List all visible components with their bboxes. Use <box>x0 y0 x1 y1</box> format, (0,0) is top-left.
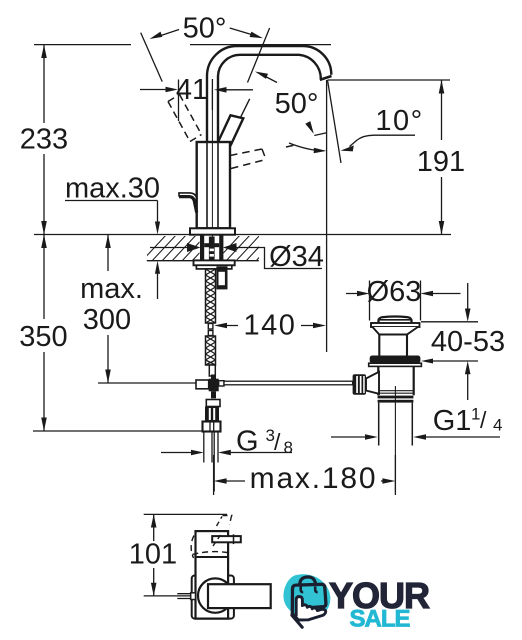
G3/8 nut <box>203 422 221 432</box>
dim max180 <box>214 455 396 495</box>
lower flange <box>369 363 422 366</box>
50deg2 narrow arrow <box>305 121 314 134</box>
countertop bottom line <box>147 260 259 262</box>
dim 41 <box>140 79 253 121</box>
50deg wedge line A <box>141 33 163 82</box>
body divider <box>196 556 229 558</box>
Ø63 arrows <box>357 291 370 297</box>
dim 40-53 <box>421 283 478 400</box>
top flange <box>371 323 420 327</box>
braided hose segment 1 <box>206 269 216 323</box>
pop-up rod below <box>216 266 227 289</box>
tapered neck <box>373 327 418 335</box>
svg-text:4: 4 <box>493 416 502 435</box>
supply connector stack <box>206 400 220 407</box>
spout tube inner <box>218 55 321 142</box>
countertop reference line <box>34 234 451 236</box>
dim max300 vertical <box>107 235 109 384</box>
10deg vertical projection line <box>326 80 328 352</box>
hose break <box>208 324 213 330</box>
spout tube outer <box>207 46 331 142</box>
shopping bag <box>292 584 326 614</box>
svg-text:10°: 10° <box>375 105 423 137</box>
lower body <box>378 366 413 395</box>
50deg left/right arrows <box>150 32 163 39</box>
dim 350 vertical <box>43 235 45 432</box>
G1 1/4 arrows <box>365 434 378 440</box>
svg-text:101: 101 <box>129 539 177 571</box>
handle tip line <box>241 99 250 118</box>
dashed handle right position <box>230 145 297 169</box>
max30 underline + arrow stems <box>65 201 158 300</box>
dim Ø63 <box>346 281 461 321</box>
10deg leader <box>350 135 416 146</box>
tube lines through body <box>207 142 218 228</box>
upper body <box>379 335 407 356</box>
50deg2 arc arrow <box>314 148 327 154</box>
dashed handle left position <box>168 95 202 142</box>
50deg2 upper leader tail <box>266 77 278 83</box>
max300 arrows <box>105 235 111 249</box>
hose end connector <box>209 365 215 376</box>
G3/8 arrows <box>191 450 204 456</box>
svg-text:max.180: max.180 <box>250 462 378 495</box>
350 arrows <box>41 235 47 249</box>
svg-text:40-53: 40-53 <box>431 326 505 358</box>
50deg2 arc <box>289 143 324 151</box>
svg-text:G: G <box>236 426 259 458</box>
svg-text:191: 191 <box>417 146 465 178</box>
knurled knob <box>353 374 366 394</box>
dashed marks top <box>213 516 233 547</box>
svg-text:/: / <box>274 429 281 455</box>
dim G3/8 <box>161 452 292 454</box>
svg-text:350: 350 <box>19 321 67 353</box>
191 arrows <box>439 80 445 94</box>
pop-up rod lever <box>179 197 197 213</box>
handle lever <box>218 115 243 145</box>
svg-text:50°: 50° <box>183 13 227 45</box>
svg-text:233: 233 <box>20 124 68 156</box>
line at max300 bottom <box>98 382 196 384</box>
dim 101 <box>144 514 227 596</box>
dim 233 vertical <box>43 45 45 235</box>
base plate <box>190 228 235 234</box>
max180 arrows <box>214 478 227 484</box>
gasket (black ring) <box>370 356 421 364</box>
hand / click cursor <box>294 597 326 621</box>
teal blob <box>283 574 330 617</box>
body <box>196 531 229 619</box>
ref line spout tip (191 top) <box>328 79 451 81</box>
233 arrows <box>41 45 47 58</box>
bag handle <box>300 577 316 586</box>
svg-text:G1: G1 <box>433 405 472 437</box>
dim G1 1/4 <box>331 436 500 438</box>
base plate square <box>192 576 234 619</box>
countertop hatching <box>141 234 281 262</box>
spout tube (plan) <box>208 584 271 608</box>
40-53 arrows <box>465 309 471 322</box>
center line <box>211 90 213 260</box>
svg-text:SALE: SALE <box>350 606 411 633</box>
50deg label tails <box>158 28 251 37</box>
spout base circle <box>198 578 232 612</box>
braided hose segment 2 <box>206 336 216 365</box>
140 arrows <box>214 323 227 329</box>
pop-up rod pin <box>177 594 196 599</box>
dim 191 vertical <box>441 80 443 235</box>
svg-text:/: / <box>480 407 487 433</box>
dim Ø34 leader <box>150 248 322 269</box>
10deg slanted line <box>328 80 342 163</box>
svg-text:140: 140 <box>244 310 297 342</box>
cap dome <box>379 317 412 324</box>
Ø34 arrows (wide) <box>187 243 201 252</box>
center line <box>394 386 396 492</box>
svg-text:8: 8 <box>284 438 293 457</box>
50deg wedge line B <box>248 28 270 83</box>
cross fitting <box>211 375 216 380</box>
ref line top (233) <box>34 44 331 46</box>
41 arrows <box>166 87 179 93</box>
horizontal rod to drain <box>224 381 353 385</box>
max30 arrows <box>155 222 160 235</box>
dashed swing arc <box>191 536 194 559</box>
tailpipe <box>379 403 413 446</box>
horn connector <box>366 372 379 394</box>
slip ring <box>378 396 414 399</box>
svg-text:300: 300 <box>83 304 131 336</box>
svg-text:Ø34: Ø34 <box>269 241 324 273</box>
supply pipe <box>204 432 218 492</box>
faucet body <box>197 142 230 228</box>
threaded shank (section) <box>200 235 204 260</box>
10deg leader arrow <box>341 145 354 151</box>
spout tip face (aerator) <box>320 76 332 80</box>
101 arrows <box>151 514 157 527</box>
handle bar (plan) <box>212 536 241 542</box>
washer <box>194 260 235 265</box>
svg-text:max.30: max.30 <box>65 173 160 205</box>
svg-text:41: 41 <box>176 74 208 106</box>
dim 140 <box>225 325 314 327</box>
mounting nut <box>196 265 231 269</box>
svg-text:50°: 50° <box>275 88 319 120</box>
line at 350 bottom <box>33 430 203 432</box>
50deg2 short line <box>314 133 326 136</box>
svg-text:Ø63: Ø63 <box>367 276 422 308</box>
svg-text:max.: max. <box>80 273 143 305</box>
